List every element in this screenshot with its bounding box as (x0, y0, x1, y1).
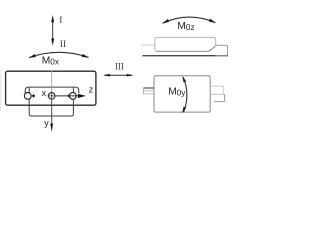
rail right stub (top view) (216, 45, 228, 56)
moment arc M0y (vertical) (183, 77, 187, 112)
bolt circle right (69, 93, 76, 100)
y arrowhead (50, 124, 53, 133)
svg-text:III: III (115, 62, 124, 72)
rail left stub top edge (top view) (141, 44, 155, 46)
moment arc M0x (29, 52, 88, 57)
carriage block (side view) (154, 76, 210, 112)
z axis line (56, 95, 78, 97)
moment arc M0z (163, 17, 216, 23)
y axis line (51, 100, 53, 124)
marker at left circle (32, 94, 36, 98)
faint crop line left edge (0, 74, 2, 111)
rail left stub (side view) (143, 87, 153, 89)
svg-text:M0z: M0z (177, 21, 194, 32)
svg-text:M0y: M0y (168, 86, 186, 97)
bolt circle left (24, 93, 31, 100)
svg-text:z: z (89, 85, 93, 95)
svg-text:x: x (42, 88, 47, 98)
section arrow III (double headed) (105, 74, 133, 76)
svg-text:M0x: M0x (42, 55, 59, 66)
rail right stub (side view) (210, 85, 223, 87)
rail bottom edge (top view, long dark line) (143, 55, 229, 57)
z arrowhead (78, 94, 86, 98)
carriage cavity (inner shape) (25, 87, 79, 95)
svg-text:I: I (59, 16, 62, 26)
axis arrow I/II (vertical double arrow) (52, 19, 54, 42)
carriage plate (top view) (155, 37, 216, 51)
carriage body (front view outer) (6, 71, 96, 105)
marker at right circle (67, 94, 70, 98)
plate corner break line (209, 46, 215, 51)
origin symbol x (circle with cross) (48, 93, 55, 100)
svg-text:y: y (44, 118, 49, 128)
rail tongue (29, 88, 73, 116)
centerline (51, 71, 53, 92)
svg-text:II: II (60, 40, 66, 50)
